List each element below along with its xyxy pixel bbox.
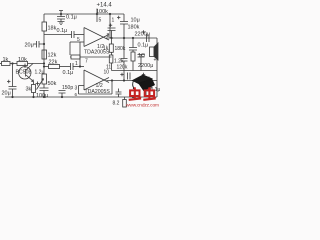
wire top supply rail — [44, 13, 124, 15]
wire speaker 1 return — [156, 59, 158, 97]
node junction dot input — [43, 43, 45, 45]
wire — [60, 66, 71, 68]
watermark hat logo — [132, 75, 156, 92]
wire column down — [123, 61, 125, 81]
svg-text:3: 3 — [75, 86, 78, 92]
svg-text:0.1μ: 0.1μ — [57, 28, 68, 34]
node supply tap — [96, 9, 98, 15]
node junction dot on rail — [60, 13, 62, 15]
svg-text:BC508: BC508 — [16, 70, 32, 76]
svg-text:8.2: 8.2 — [113, 101, 120, 107]
capacitor series electrolytic — [120, 73, 130, 80]
svg-text:3k: 3k — [26, 87, 32, 93]
svg-text:+: + — [154, 58, 157, 64]
watermark character chong 1 — [129, 87, 141, 100]
capacitor 20u input coupling — [34, 41, 45, 48]
resistor 1.2k — [109, 55, 113, 71]
node junction dot — [43, 96, 45, 98]
wire mid bus — [112, 70, 158, 72]
node junction dot — [43, 62, 45, 64]
node junction dot — [111, 79, 113, 81]
capacitor 100u — [36, 82, 49, 98]
capacitor 0.1u series — [71, 63, 74, 70]
svg-text:100μ: 100μ — [36, 93, 48, 99]
capacitor 20u bottom left — [7, 64, 17, 98]
transistor Q1 BC508 — [19, 64, 34, 85]
capacitor SVR small — [116, 89, 122, 98]
wire — [10, 63, 17, 65]
svg-text:10μ: 10μ — [131, 18, 140, 24]
svg-text:10: 10 — [104, 70, 110, 76]
node junction dot — [147, 79, 149, 81]
svg-text:1Ω: 1Ω — [138, 53, 145, 59]
svg-text:20μ: 20μ — [2, 91, 11, 97]
wire to speaker 1 — [156, 38, 158, 44]
svg-text:18k: 18k — [48, 26, 57, 32]
svg-text:2200μ: 2200μ — [138, 63, 153, 69]
capacitor 2200u series output A — [142, 30, 149, 42]
svg-text:120k: 120k — [117, 65, 128, 71]
wire emitter to ground — [33, 93, 35, 98]
resistor 1k feedback A — [109, 38, 113, 55]
zobel A capacitor 0.1u — [129, 38, 137, 52]
resistor 1 ohm zobel A — [131, 52, 135, 71]
wire output A — [106, 37, 157, 39]
capacitor 0.1u decoupling — [57, 11, 65, 25]
node junction dot on rail — [96, 13, 98, 15]
svg-text:1k: 1k — [103, 46, 109, 52]
wire left column from rail — [43, 14, 45, 22]
svg-text:1: 1 — [75, 61, 78, 67]
wire supply pin stub pin 5 — [96, 14, 98, 22]
zobel B capacitor 0.1u — [145, 81, 153, 98]
svg-text:1: 1 — [112, 18, 115, 24]
wire 22k row — [44, 66, 49, 68]
wire op-amp A minus input — [70, 41, 84, 43]
feedback loop A — [70, 42, 112, 59]
wire column down — [123, 38, 125, 59]
svg-text:7: 7 — [85, 59, 88, 65]
svg-text:50k: 50k — [48, 81, 57, 87]
wire supply drop column — [123, 14, 125, 22]
resistor 22k — [49, 65, 60, 69]
resistor 3k — [32, 85, 36, 93]
resistor 18k — [42, 22, 47, 31]
wire left column — [43, 31, 45, 74]
wire — [28, 63, 45, 65]
svg-text:20μ: 20μ — [25, 43, 34, 49]
node junction dot — [11, 62, 13, 64]
svg-text:150p: 150p — [62, 85, 73, 91]
wire — [74, 34, 84, 36]
svg-text:1k: 1k — [3, 57, 9, 63]
capacitor 2200u series output B — [142, 73, 149, 85]
feedback loop B — [79, 81, 113, 95]
svg-text:www.cndzz.com: www.cndzz.com — [126, 103, 159, 109]
svg-text:100k: 100k — [96, 9, 108, 15]
capacitor bootstrap on output A — [108, 24, 116, 39]
node junction dot — [61, 96, 63, 98]
capacitor stub — [138, 55, 145, 71]
svg-text:0.1μ: 0.1μ — [63, 70, 74, 76]
node junction dot — [123, 37, 125, 39]
wire cross link between amps — [79, 42, 81, 67]
potentiometer 50k — [37, 74, 47, 90]
speaker LS1 — [150, 43, 159, 60]
wire pin 1 drop — [109, 14, 111, 38]
resistor 12k — [42, 50, 47, 59]
node junction dot — [32, 96, 34, 98]
watermark character chong 2 — [143, 87, 155, 100]
capacitor in column — [121, 59, 128, 62]
wire output B — [107, 80, 158, 82]
svg-text:10k: 10k — [18, 57, 27, 63]
wire minus input B — [79, 85, 85, 87]
resistor 10k — [17, 62, 28, 66]
node junction dot on rail — [109, 13, 111, 15]
svg-text:22k: 22k — [49, 60, 58, 66]
svg-text:180k: 180k — [115, 46, 126, 52]
wire bottom ground rail — [5, 96, 157, 98]
svg-text:+14.4: +14.4 — [97, 3, 113, 9]
svg-text:1.2μ: 1.2μ — [35, 70, 45, 76]
node junction dot — [43, 65, 45, 67]
svg-text:5: 5 — [99, 18, 102, 24]
capacitor 150p — [59, 91, 66, 98]
svg-text:6: 6 — [75, 92, 78, 97]
svg-text:2200μ: 2200μ — [135, 32, 150, 38]
resistor 1k — [2, 62, 11, 66]
node junction dot — [11, 96, 13, 98]
node junction dot output A — [110, 37, 112, 39]
resistor below rail — [123, 97, 127, 107]
node junction dot — [132, 96, 134, 98]
svg-text:5: 5 — [77, 37, 80, 43]
wire op-amp A plus input — [44, 34, 72, 36]
op-amp U1B 1/2 TDA2005S — [84, 70, 109, 90]
capacitor 0.1u series input A — [72, 31, 75, 38]
svg-text:180k: 180k — [128, 25, 140, 31]
node junction dot — [123, 79, 125, 81]
svg-text:0.1μ: 0.1μ — [138, 43, 149, 49]
svg-text:12k: 12k — [48, 53, 57, 59]
wire input line bottom left — [0, 63, 2, 65]
svg-text:8: 8 — [107, 33, 110, 39]
op-amp U1A 1/2 TDA2005S — [84, 28, 109, 47]
capacitor 10u — [117, 16, 128, 38]
node junction dot — [79, 65, 81, 67]
wire — [73, 66, 84, 68]
svg-text:0.1μ: 0.1μ — [66, 15, 77, 21]
svg-text:TDA2005S: TDA2005S — [85, 89, 111, 95]
node junction dot — [132, 37, 134, 39]
